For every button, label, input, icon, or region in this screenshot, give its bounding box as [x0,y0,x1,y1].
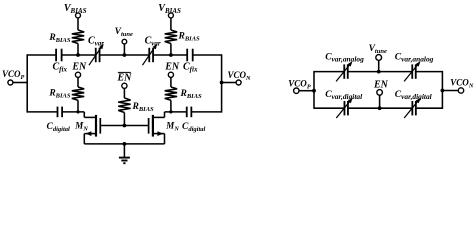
svg-text:Cvar,analog: Cvar,analog [395,53,434,64]
varactor Cvar right [148,48,150,62]
wire: right circuit bottom rail segment 2 [348,107,412,109]
transistor MN left channel bar [95,115,97,137]
wire: right circuit left rail [313,71,315,109]
resistor RBIAS right middle [165,87,177,100]
wire: top rail segment 4 [153,54,187,56]
node: RBIAS left rail junction [76,53,80,57]
node: RBIAS left Cdigital junction [76,110,79,113]
wire: left circuit top rail segment 1 [27,54,56,56]
transistor MN right gate bar [148,118,150,134]
resistor RBIAS left middle [72,87,84,100]
node: RBIAS right Cdigital junction [169,110,172,113]
wire: right drain step down [164,112,166,118]
transistor MN left gate bar [99,118,101,134]
node: Vtune junction right circuit [377,70,381,74]
varactor Cvar,digital left [343,101,345,115]
wire: top rail segment 2 [62,54,96,56]
wire: top rail segment 3 (center) [100,54,150,56]
wire: left vertical rail [26,54,28,112]
svg-text:EN: EN [71,61,87,72]
wire: VCON lead [222,82,237,84]
capacitor Cdigital left [57,107,59,118]
wire: EN left to RBIAS [77,77,79,87]
wire: RBIAS right to Cdigital line [170,100,172,112]
svg-text:EN: EN [164,61,180,72]
wire: bottom source rail [84,143,164,145]
wire: VBIAS right to RBIAS [170,18,172,30]
svg-text:Cvar,analog: Cvar,analog [325,53,364,64]
wire: RBIAS left to rail [77,44,79,56]
wire: right vertical rail [221,54,223,112]
varactor Cvar,analog left [343,64,345,78]
node: VCON rail junction [441,89,445,93]
svg-text:Cvar,digital: Cvar,digital [395,90,433,101]
varactor Cvar left [95,48,97,62]
node: EN junction right circuit [378,106,382,110]
node: bottom rail center junction [123,142,127,146]
varactor Cvar,digital right [411,101,413,115]
wire: left source lead with arrow [84,133,96,135]
wire: top rail segment 5 [193,54,222,56]
wire: Cdigital right line segment 1 [165,111,187,113]
node: VCOP rail junction [312,89,316,93]
wire: right circuit bottom rail segment 3 [416,107,442,109]
wire: Vtune lead right circuit [378,60,380,71]
wire: RBIAS right to rail [170,44,172,56]
wire: VCOP lead [13,82,27,84]
node: Vtune junction dot [123,53,127,57]
resistor RBIAS left top [72,30,84,44]
node: gate line center junction [123,124,127,128]
resistor RBIAS center [118,98,130,113]
wire: ENbar to RBIAS center [123,88,125,98]
wire: right circuit top rail segment 1 [314,71,344,73]
wire: right circuit top rail segment 2 [348,71,412,73]
wire: left drain step down [83,112,85,118]
wire: Cdigital right line segment 2 [191,111,221,113]
wire: right circuit right rail [441,71,443,109]
wire: right circuit top rail segment 3 [416,71,442,73]
node: VCON junction dot [220,81,224,85]
varactor Cvar,analog right [411,64,413,78]
wire: RBIAS left to Cdigital line [77,100,79,112]
wire: right circuit bottom rail segment 1 [314,107,344,109]
node: RBIAS right rail junction [169,53,173,57]
wire: VCOP lead right circuit [299,90,314,92]
wire: right source down [164,134,166,144]
svg-text:Cvar,digital: Cvar,digital [325,90,363,101]
wire: Cdigital left line segment 2 [62,111,84,113]
wire: Vtune lead down [123,44,125,55]
wire: EN lead right circuit [379,95,381,108]
transistor MN right channel bar [152,115,154,137]
wire: Cdigital left line segment 1 [27,111,57,113]
wire: EN right to RBIAS [170,77,172,87]
wire: right source lead with arrow [153,133,165,135]
wire: left drain lead [84,116,96,118]
capacitor Cdigital right [186,107,188,118]
resistor RBIAS right top [165,30,177,44]
capacitor Cfix left [55,49,57,62]
ground symbol [123,144,125,157]
wire: VCON lead right circuit [442,90,458,92]
wire: gate line between transistors [101,125,148,127]
wire: left source down [83,134,85,144]
svg-text:EN: EN [373,79,389,90]
svg-text:EN: EN [116,73,132,84]
wire: right drain lead [153,116,165,118]
wire: RBIAS center to gate line [123,113,125,126]
capacitor Cfix right [186,49,188,62]
wire: VBIAS left to RBIAS [77,18,79,30]
